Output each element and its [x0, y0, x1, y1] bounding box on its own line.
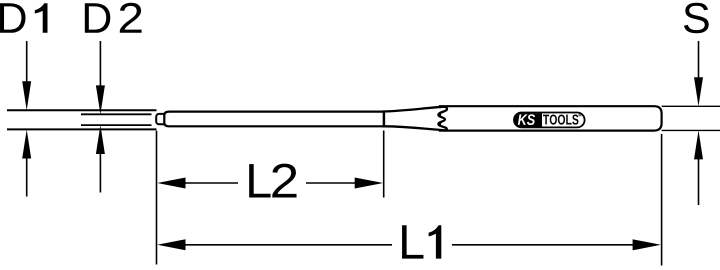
L2 dimension line left segment with arrow [180, 182, 238, 184]
handle body [440, 106, 662, 130]
thin line handle-end to right edge, top (S top edge) [662, 105, 720, 107]
thin line handle-end to right edge, bottom (S bottom edge) [662, 129, 720, 131]
left extension line (tip end) [156, 131, 158, 265]
label L1 [402, 225, 423, 258]
right extension line (handle end) [661, 134, 663, 266]
pin outer top line (D1 top edge) [7, 109, 157, 111]
D2 top arrow [99, 41, 101, 87]
shaft/flare joint line [383, 110, 385, 127]
registered mark [579, 114, 581, 116]
label S [684, 3, 709, 33]
TOOLS letters [543, 115, 578, 125]
shaft body [164, 112, 384, 127]
inner bottom line (D2 bottom edge) [81, 124, 152, 126]
L1 dimension line right segment with arrow [452, 244, 638, 246]
label D1 [0, 3, 25, 33]
L1 dimension line left segment with arrow [180, 244, 392, 246]
KS logo black lobe [514, 113, 542, 126]
flare with wavy grip edge [384, 107, 447, 131]
S bottom arrow [698, 157, 700, 205]
L2 dimension line right segment with arrow [306, 182, 360, 184]
collar at pin/shaft junction [156, 114, 167, 124]
D1 top arrow [26, 41, 28, 84]
D2 bottom arrow [99, 152, 101, 193]
KS TOOLS logo pill [514, 113, 585, 128]
KS letters [518, 114, 535, 125]
L2 right extension line [383, 131, 385, 198]
inner top line (D2 top edge) [81, 113, 152, 115]
label L2 [249, 164, 270, 197]
pin outer bottom line (D1 bottom edge) [7, 128, 157, 130]
label D2 [85, 3, 110, 33]
D1 bottom arrow [26, 156, 28, 197]
S top arrow [698, 41, 700, 80]
